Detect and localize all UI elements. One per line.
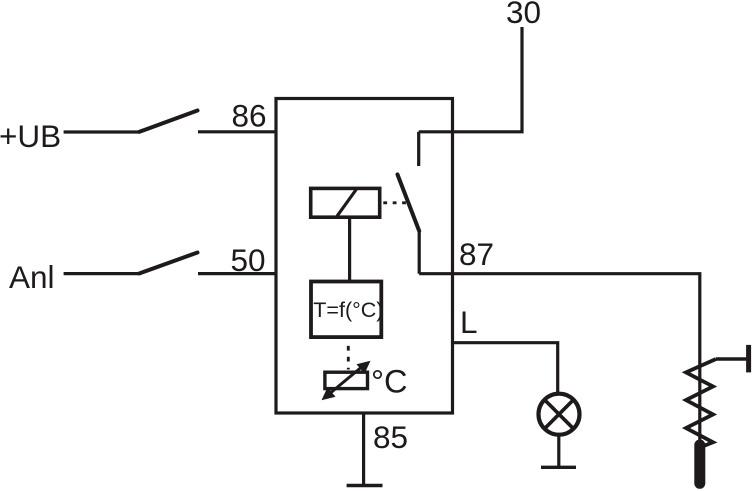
- lamp H1: [539, 394, 580, 435]
- wire blade to 87 node: [418, 230, 421, 274]
- svg-text:T=f(°C): T=f(°C): [313, 298, 383, 322]
- wire coil to control box: [348, 218, 351, 281]
- svg-text:85: 85: [373, 419, 408, 455]
- sensor arrowhead top-right: [357, 361, 371, 374]
- switch blade (86 feed): [140, 111, 198, 132]
- glow plug terminal bar: [746, 345, 751, 373]
- svg-text:86: 86: [232, 98, 267, 134]
- glow plug heater zigzag: [686, 359, 716, 448]
- control unit box: [311, 282, 381, 338]
- wire +UB to switch: [64, 130, 140, 133]
- svg-text:30: 30: [506, 0, 541, 30]
- svg-text:87: 87: [459, 236, 494, 272]
- relay box outline: [276, 99, 453, 414]
- switch blade (50 feed): [140, 253, 198, 274]
- ground 85: [347, 484, 383, 487]
- svg-text:°C: °C: [371, 363, 407, 399]
- lamp ground wire: [557, 436, 560, 467]
- wire 30 vertical and horizontal into box: [419, 27, 522, 132]
- sensor arrow shaft: [328, 365, 364, 395]
- sensor arrowhead bottom-left: [322, 387, 336, 400]
- svg-text:L: L: [460, 304, 478, 340]
- wire terminal 85 to ground: [362, 414, 365, 486]
- temperature sensor body: [325, 372, 368, 388]
- glow plug terminal wire: [716, 357, 748, 360]
- svg-text:50: 50: [231, 242, 266, 278]
- relay contact blade: [398, 175, 420, 232]
- relay coil: [311, 188, 380, 217]
- dashed link coil to contact: [383, 201, 408, 204]
- wire switch to terminal 86: [198, 130, 276, 133]
- wire 87 to glow plug: [419, 274, 700, 446]
- coil diagonal: [337, 190, 356, 217]
- dashed link control box to sensor: [347, 346, 350, 370]
- svg-text:Anl: Anl: [9, 259, 55, 295]
- wire switch to terminal 50: [198, 272, 276, 275]
- relay contact fixed pin: [417, 132, 420, 166]
- wire L to lamp: [453, 343, 558, 392]
- wire Anl to switch: [64, 272, 140, 275]
- glow plug tip: [694, 445, 705, 483]
- lamp ground: [541, 466, 576, 469]
- svg-text:+UB: +UB: [0, 118, 61, 154]
